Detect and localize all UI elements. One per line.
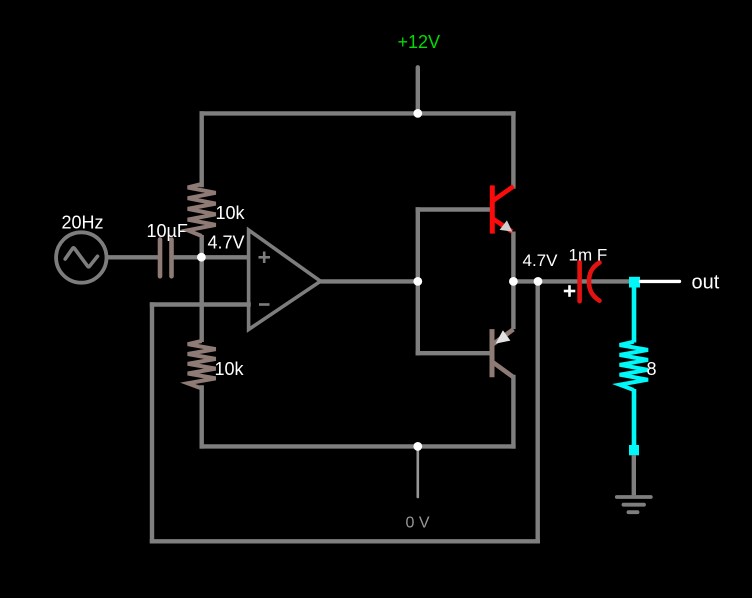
resistor R2 10k — [188, 341, 216, 389]
wire feedback bottom horizontal — [152, 539, 538, 543]
wire Q1 emitter down — [511, 232, 515, 282]
wire ground stem — [632, 455, 636, 495]
ground post (cyan square) — [629, 445, 639, 455]
junction dot 0V rail — [413, 442, 422, 451]
wire source to C1 — [107, 255, 159, 259]
wire Q1 collector to +12V rail — [511, 113, 515, 186]
wire top rail down to R1 — [199, 113, 203, 185]
junction dot op-amp output / bases — [413, 277, 422, 286]
capacitor C1 10uF — [160, 240, 172, 277]
wire R1 to node A — [199, 235, 203, 258]
+12V rail wire — [202, 111, 514, 115]
svg-text:10k: 10k — [216, 203, 246, 223]
svg-text:8: 8 — [647, 359, 657, 379]
svg-text:1m F: 1m F — [569, 246, 608, 265]
0V terminal stub — [416, 446, 419, 497]
svg-text:4.7V: 4.7V — [523, 251, 559, 270]
wire feedback right vertical — [536, 281, 540, 541]
svg-text:10k: 10k — [215, 359, 245, 379]
wire feedback left vertical — [150, 305, 154, 542]
capacitor C2 1mF (polarized, red) — [580, 262, 600, 301]
transistor Q1 (NPN, red) — [492, 185, 513, 233]
wire C1 to op-amp + input — [173, 255, 249, 259]
wire base column vertical — [416, 210, 420, 354]
wire R3 to ground post — [632, 389, 637, 446]
wire to Q1 base — [418, 207, 490, 211]
svg-text:0 V: 0 V — [406, 515, 430, 532]
svg-text:out: out — [692, 272, 720, 294]
resistor R3 8 ohm (cyan) — [620, 342, 648, 390]
wire output node to R3 — [632, 287, 637, 343]
output node post (cyan square) — [629, 277, 640, 288]
junction dot +12V rail — [413, 109, 422, 118]
wire emitters to C2 node — [513, 279, 630, 283]
0V rail wire — [202, 444, 514, 448]
wire Q2 collector down — [511, 377, 515, 446]
node A junction dot — [197, 253, 206, 262]
wire Q2 emitter up — [511, 281, 515, 329]
junction dot emitters — [509, 277, 518, 286]
+12V stub wire — [416, 67, 420, 113]
plus sign of C2 — [564, 285, 576, 297]
wire R2 to 0V rail — [199, 388, 203, 447]
wire node A down to R2 — [199, 257, 203, 342]
wire out (white) — [641, 280, 680, 283]
svg-text:10µF: 10µF — [147, 221, 188, 241]
wire feedback to op-amp - input — [152, 302, 249, 306]
svg-text:4.7V: 4.7V — [208, 233, 245, 253]
svg-text:20Hz: 20Hz — [62, 213, 104, 233]
resistor R1 10k — [188, 184, 216, 236]
op-amp U1 — [249, 230, 321, 330]
transistor Q2 (PNP) — [492, 329, 513, 377]
wire to Q2 base — [418, 351, 490, 355]
wire op-amp output — [321, 279, 418, 283]
junction dot feedback tap — [534, 277, 543, 286]
voltage source V1 (20Hz sine) — [56, 232, 106, 282]
ground symbol — [617, 497, 651, 512]
svg-text:+12V: +12V — [398, 32, 441, 52]
